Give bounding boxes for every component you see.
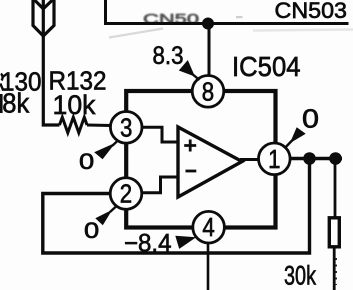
wire: op-amp output to pin 1 — [240, 158, 260, 161]
svg-text:0: 0 — [79, 149, 94, 174]
faint scan line under CN503 — [253, 30, 353, 31]
wire: feedback loop from output to pin 2 — [43, 159, 310, 254]
measurement arrow at pin 3 — [94, 143, 115, 160]
svg-text:8.3: 8.3 — [153, 42, 184, 70]
measurement arrow at pin 1 — [290, 127, 306, 143]
wire: junction down to pin 8 — [208, 24, 211, 78]
svg-text:1: 1 — [268, 144, 280, 174]
svg-text:8: 8 — [202, 76, 214, 106]
pin 3 — [110, 112, 142, 144]
svg-text:30k: 30k — [284, 261, 317, 290]
wire: connector down to R132 node — [43, 34, 59, 125]
svg-text:2: 2 — [120, 179, 132, 209]
measurement arrow at pin 8 — [179, 60, 195, 77]
measurement arrow at pin 4 — [175, 236, 196, 249]
junction (feedback tap) — [303, 152, 316, 165]
IC box IC504 — [126, 91, 275, 228]
wire: top horizontal to CN503 — [104, 22, 349, 25]
pin 4 — [193, 211, 225, 243]
faint scan dash — [236, 16, 243, 18]
wire: pin 4 down to bottom edge — [207, 243, 210, 290]
svg-text:0: 0 — [84, 218, 99, 243]
svg-text:CN50: CN50 — [143, 12, 199, 27]
junction on top wire — [202, 18, 214, 30]
junction (30k tap) — [329, 152, 342, 165]
svg-text:0: 0 — [302, 103, 319, 133]
faint diagonal scan smudge — [109, 29, 163, 38]
op-amp U1 (IC504) — [178, 127, 242, 197]
pin 8 — [192, 76, 224, 108]
connector arrow (off-page, top-left) — [33, 0, 54, 36]
resistor R132 (zigzag) — [60, 117, 88, 133]
svg-text:IC504: IC504 — [232, 51, 301, 82]
pin 1 — [259, 143, 291, 175]
wire: pin 1 output to the right — [290, 157, 342, 161]
svg-text:10k: 10k — [53, 90, 96, 120]
label 18k (cut off at left edge): visible bar of the "1" — [0, 94, 3, 113]
op-amp - sign — [186, 170, 197, 173]
wire: pin 3 jog to op-amp + input — [140, 127, 179, 142]
svg-text:8k: 8k — [2, 88, 30, 119]
wire: 30k resistor to bottom edge — [333, 247, 336, 290]
label R130 (cut off at left edge) — [0, 74, 3, 91]
svg-text:CN503: CN503 — [275, 0, 348, 23]
svg-text:4: 4 — [202, 212, 214, 242]
svg-text:3: 3 — [120, 112, 132, 142]
wire: pin 2 jog to op-amp - input — [140, 177, 179, 193]
op-amp + sign — [184, 140, 196, 152]
resistor 30k (box) — [329, 218, 339, 247]
wire: R132 to pin 3 — [87, 124, 111, 128]
measurement arrow at pin 2 — [95, 210, 112, 226]
wire: top vertical stub — [104, 0, 107, 24]
wire: junction down to 30k resistor — [334, 159, 337, 219]
pin 2 — [110, 178, 142, 210]
